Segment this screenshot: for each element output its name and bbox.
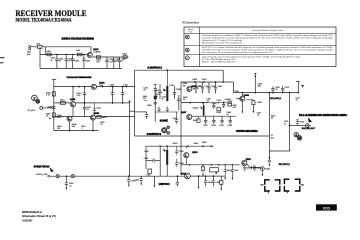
wire: center top bus — [181, 81, 234, 83]
svg-text:A SUPPLY 1: A SUPPLY 1 — [147, 67, 162, 70]
capacitor C402 — [65, 56, 67, 59]
svg-text:L402: L402 — [76, 50, 80, 52]
svg-text:.01: .01 — [275, 89, 278, 91]
svg-text:R401: R401 — [46, 51, 51, 53]
svg-text:.01: .01 — [100, 124, 103, 126]
svg-text:C442: C442 — [173, 118, 178, 120]
wire: feed riser — [45, 47, 47, 55]
component block — [154, 96, 157, 100]
wire: left rail — [53, 79, 55, 130]
svg-text:RX_AUD: RX_AUD — [28, 109, 36, 112]
resistor R432 — [217, 108, 221, 111]
svg-text:VCO_RF_OUT: VCO_RF_OUT — [302, 128, 316, 130]
capacitor C408 — [118, 57, 120, 60]
capacitor C433 — [213, 103, 215, 106]
label LOW VCO — [159, 183, 169, 185]
wire: Q408 base — [236, 98, 241, 100]
ground arrow — [198, 176, 200, 187]
label VCO_RF_OUT — [302, 128, 314, 130]
svg-text:CR404: CR404 — [225, 99, 231, 101]
label A SUPPLY 1 — [147, 67, 162, 69]
svg-text:R435: R435 — [257, 102, 262, 104]
svg-text:R408: R408 — [102, 117, 107, 119]
svg-text:C462: C462 — [300, 122, 304, 124]
svg-text:.01: .01 — [109, 61, 112, 63]
svg-text:.01: .01 — [121, 61, 124, 63]
wire: top feed — [34, 46, 38, 48]
wire: right vertical rail — [268, 93, 270, 158]
label PLL injection — [299, 114, 347, 116]
wire: crystal top bus — [146, 145, 214, 147]
svg-text:C435: C435 — [203, 125, 208, 127]
transistor Q404 — [67, 116, 72, 121]
wire: center low bus — [190, 115, 236, 117]
svg-text:330: 330 — [258, 86, 261, 88]
svg-text:R441: R441 — [194, 143, 199, 145]
thick inductor L409 — [166, 70, 168, 86]
svg-text:.01: .01 — [69, 185, 72, 187]
label 5 RX VCO — [34, 166, 50, 168]
svg-text:82 MHZ: 82 MHZ — [160, 121, 169, 123]
resistor R443 — [202, 165, 204, 167]
table header separator — [184, 33, 336, 35]
capacitor C458 — [244, 165, 246, 168]
svg-text:R404: R404 — [96, 51, 101, 53]
page edge mark — [0, 57, 5, 59]
terminal E401 — [254, 73, 256, 75]
table frame — [184, 27, 336, 67]
resistor R412 series — [60, 102, 65, 105]
svg-text:.01: .01 — [86, 109, 89, 111]
label BUFFER AMPLIFIERS — [236, 130, 258, 132]
transistor Q407 — [187, 114, 192, 119]
ground bus — [40, 68, 122, 70]
svg-text:47: 47 — [51, 60, 53, 62]
wire: low bus — [181, 164, 240, 166]
wedge mark — [301, 85, 304, 88]
resistor R444 — [261, 167, 265, 171]
svg-text:C457: C457 — [234, 170, 239, 172]
capacitor C431 — [159, 86, 161, 91]
svg-text:4.7: 4.7 — [227, 114, 230, 116]
reference bubble 3 — [36, 100, 40, 104]
capacitor C413 — [84, 103, 86, 107]
capacitor C412 — [84, 87, 86, 93]
transistor Q402 — [91, 84, 96, 89]
svg-text:.1: .1 — [81, 128, 83, 130]
thick inductor L408 — [203, 105, 205, 115]
resistor R407 rail — [52, 113, 55, 117]
wire: ballast top bus — [54, 86, 135, 88]
svg-text:15: 15 — [162, 99, 164, 101]
svg-text:R444: R444 — [265, 169, 270, 171]
svg-text:SUPPLY VOLTAGE FILTERING: SUPPLY VOLTAGE FILTERING — [62, 37, 95, 41]
transistor Q405 — [90, 115, 95, 120]
capacitor C446 — [176, 159, 178, 163]
svg-text:C: C — [186, 56, 188, 60]
capacitor C442 — [176, 112, 178, 120]
svg-text:RF_OUT_2: RF_OUT_2 — [279, 164, 291, 166]
box outline — [210, 168, 219, 172]
capacitor C451 — [128, 175, 130, 177]
transistor Q409 — [185, 173, 191, 179]
wire: mid bus — [40, 54, 87, 56]
wire: Q408 emitter — [241, 102, 243, 112]
svg-text:VCO: VCO — [323, 206, 331, 210]
svg-text:68P81094E34-A: 68P81094E34-A — [22, 210, 42, 214]
ground arrow — [153, 176, 155, 185]
svg-text:220: 220 — [143, 98, 146, 100]
svg-text:18: 18 — [296, 100, 298, 102]
capacitor C406 — [106, 57, 108, 60]
varactor CR405 — [178, 95, 180, 99]
wire: rail end riser — [297, 81, 299, 92]
svg-text:STEER_LINE: STEER_LINE — [36, 174, 48, 176]
svg-text:MODEL TRX4034A/CRX4034A: MODEL TRX4034A/CRX4034A — [16, 18, 72, 24]
section label: SUPPLY VOLTAGE FILTERING — [62, 38, 95, 40]
resistor R408 — [97, 116, 101, 119]
svg-text:.01: .01 — [68, 61, 71, 63]
capacitor C404 — [83, 56, 85, 59]
capacitor C414 — [93, 103, 95, 109]
svg-text:C414: C414 — [96, 107, 101, 109]
resistor R402 series — [77, 53, 82, 56]
capacitor C437 — [221, 116, 223, 120]
svg-text:L401: L401 — [36, 44, 40, 46]
svg-text:C404: C404 — [86, 61, 91, 63]
wire: emitter bus — [93, 56, 129, 58]
svg-text:C438: C438 — [228, 125, 233, 127]
svg-text:Path: Path — [188, 31, 192, 34]
capacitor C435 — [205, 116, 207, 120]
label A SUPPLY 2 — [147, 133, 162, 135]
wire: center left rail — [180, 82, 182, 175]
wire: Q403 emitter — [72, 107, 74, 117]
svg-text:C449: C449 — [217, 86, 221, 88]
capacitor C450 — [65, 175, 67, 177]
svg-text:C433: C433 — [212, 103, 217, 105]
resistor R406 — [52, 92, 55, 96]
connector J401 — [29, 46, 31, 48]
shield can 2 — [284, 179, 289, 184]
table row 2 symbol — [185, 48, 189, 52]
wire: 82MHz inner bus — [155, 111, 179, 113]
value labels center block — [155, 83, 237, 116]
svg-text:68: 68 — [271, 118, 273, 120]
svg-text:RECEIVER MODULE: RECEIVER MODULE — [16, 9, 87, 18]
svg-text:R405: R405 — [122, 53, 127, 55]
capacitor C436 — [213, 116, 215, 120]
crystal Y401 — [148, 169, 152, 173]
svg-text:Q409: Q409 — [181, 172, 187, 175]
polarity mark — [49, 117, 51, 119]
svg-text:VCO Service Notes: VCO Service Notes — [182, 21, 199, 25]
section label: VCO BALLAST UNREGULATED — [67, 77, 92, 79]
svg-text:A SUPPLY 2: A SUPPLY 2 — [147, 133, 162, 136]
label RF_OUT_2 — [279, 163, 289, 165]
capacitor C441 — [166, 107, 168, 110]
svg-text:R431: R431 — [202, 79, 207, 81]
capacitor C403 — [72, 56, 74, 59]
wire: VCO out — [290, 125, 306, 127]
capacitor C434 — [223, 103, 225, 105]
resistor R401 series — [47, 53, 51, 56]
wire: inner vertical rail — [129, 101, 131, 176]
svg-text:C410: C410 — [110, 84, 115, 86]
inline connector 1 — [56, 175, 59, 178]
svg-text:Description/Nominal Signal Lev: Description/Nominal Signal Levels — [252, 29, 284, 32]
wire: after Q409 — [190, 175, 225, 177]
wire: left box edge — [134, 70, 136, 136]
wire: Q403 collector — [72, 87, 74, 102]
wire: ballast mid bus — [54, 102, 71, 104]
reference bubble 4 — [294, 132, 298, 136]
inline connector 2 — [71, 175, 74, 178]
inductor L401 — [38, 45, 43, 48]
svg-text:R433: R433 — [228, 101, 233, 103]
svg-text:10: 10 — [59, 61, 61, 63]
svg-text:C411: C411 — [123, 84, 127, 86]
svg-text:R430: R430 — [193, 79, 198, 81]
thick inductor L410 — [166, 150, 168, 165]
wire: box bottom edge — [135, 135, 270, 137]
svg-text:BUFFER AMPLIFIERS: BUFFER AMPLIFIERS — [236, 130, 258, 133]
capacitor C410 — [112, 87, 114, 93]
wire RX input — [43, 107, 54, 109]
capacitor C443 series — [146, 159, 153, 161]
svg-text:C452: C452 — [135, 180, 140, 182]
transistor Q411 — [242, 160, 247, 165]
transistor Q410 — [184, 153, 189, 158]
wire: buffer bias bus — [180, 145, 182, 147]
capacitor C462 — [297, 123, 299, 125]
shield can 2 pin — [286, 191, 288, 193]
svg-text:L409: L409 — [170, 85, 174, 87]
svg-text:Q411: Q411 — [246, 158, 252, 161]
resistor R405 end — [123, 56, 127, 59]
svg-text:R442: R442 — [202, 142, 207, 144]
shield can 2 tick — [301, 184, 304, 186]
resistor R434 — [197, 119, 200, 122]
wire: output stub — [247, 164, 249, 167]
shield can tick — [260, 184, 263, 186]
table row separator 1 — [184, 45, 336, 47]
wire: inner rail 155 — [154, 84, 158, 86]
transistor Q406 — [187, 86, 192, 91]
svg-text:01/05/97: 01/05/97 — [22, 218, 33, 222]
wire: A SUPPLY 1 rail — [135, 69, 224, 71]
svg-text:VCO BALLAST UNREGULATED: VCO BALLAST UNREGULATED — [67, 76, 92, 79]
resistor R433 — [228, 103, 232, 106]
page edge mark — [0, 62, 4, 64]
svg-text:LOW VCO: LOW VCO — [159, 184, 170, 186]
wire: ballast bottom bus — [54, 130, 99, 132]
capacitor C454 — [205, 176, 207, 181]
ballast lower labels — [57, 122, 105, 130]
capacitor C409 left rail — [53, 105, 55, 107]
svg-text:C436: C436 — [211, 125, 216, 127]
svg-text:.22: .22 — [207, 101, 210, 103]
wire: far right vertical — [289, 93, 291, 151]
capacitor C407 — [113, 57, 115, 60]
svg-text:C445: C445 — [179, 151, 184, 153]
transistor Q401 — [87, 52, 92, 57]
capacitor C453 series stub — [176, 175, 178, 177]
capacitor C445 — [176, 146, 178, 151]
svg-text:8.2: 8.2 — [155, 96, 158, 98]
capacitor C457 — [231, 165, 233, 170]
capacitor C455 — [212, 176, 214, 181]
svg-text:R434: R434 — [193, 120, 198, 122]
reference bubble 2 — [32, 95, 38, 101]
table row separator 2 — [184, 54, 336, 56]
ground arrow — [242, 111, 244, 113]
transistor Q403 — [70, 102, 75, 107]
svg-text:33: 33 — [143, 90, 145, 92]
node tick — [52, 78, 56, 80]
resistor R435 — [246, 99, 253, 101]
capacitor C452 — [140, 176, 142, 178]
transistor Q408 — [240, 96, 245, 101]
wire: ballast low bus — [54, 115, 135, 117]
connector P401 — [306, 124, 310, 128]
svg-text:C437: C437 — [219, 125, 224, 127]
shield can 1 pin — [267, 191, 269, 193]
capacitor C421 — [282, 90, 284, 93]
capacitor C460 series — [250, 166, 252, 170]
svg-text:CR405: CR405 — [193, 108, 199, 110]
svg-text:Q408: Q408 — [244, 94, 250, 97]
reference bubble 5 — [297, 136, 302, 141]
wire: gnd drop left — [39, 47, 41, 69]
svg-text:489.35 - 501.35 MHz for high V: 489.35 - 501.35 MHz for high VCO — [202, 60, 236, 63]
capacitor C420 — [272, 90, 274, 93]
capacitor C411 — [122, 87, 124, 93]
svg-text:401: 401 — [271, 137, 274, 139]
svg-text:Baseband = 4 V low VCO (collec: Baseband = 4 V low VCO (collector) — [202, 42, 242, 45]
svg-text:C403: C403 — [75, 61, 80, 63]
svg-text:CR404: CR404 — [176, 89, 182, 91]
table row 3 text — [202, 55, 300, 63]
wire: VCO output line — [48, 175, 50, 177]
wire: crystal left rail — [159, 146, 161, 176]
wire + ground arrow 2 — [252, 105, 254, 111]
svg-text:the capacitance of the varacto: the capacitance of the varactor diodes a… — [202, 51, 274, 54]
table row 1 text — [202, 34, 334, 45]
svg-text:Q405: Q405 — [94, 112, 100, 115]
table row 1 symbol — [185, 35, 189, 39]
wire: crystal left feed — [145, 146, 147, 169]
svg-text:R413: R413 — [57, 117, 62, 119]
svg-text:Q407: Q407 — [181, 111, 187, 114]
label RF_OUT_1 — [270, 97, 280, 99]
svg-text:10: 10 — [116, 61, 118, 63]
svg-text:Schematics (Sheet 16 of 27): Schematics (Sheet 16 of 27) — [22, 214, 56, 218]
svg-text:RF_OUT_1: RF_OUT_1 — [270, 98, 282, 100]
capacitor C438 — [229, 116, 231, 120]
shield can 1 — [265, 180, 270, 185]
capacitor C461 — [268, 158, 270, 161]
svg-text:R412: R412 — [60, 99, 65, 101]
svg-text:Q410: Q410 — [192, 151, 198, 154]
capacitor C432 — [174, 86, 176, 93]
svg-text:6.8: 6.8 — [217, 102, 220, 104]
capacitor C401 — [56, 56, 58, 59]
VCO label box — [316, 204, 337, 210]
svg-text:560: 560 — [72, 126, 75, 128]
oscillator symbol — [162, 128, 167, 133]
resistor R403 series — [97, 56, 101, 58]
svg-text:12: 12 — [284, 123, 286, 125]
svg-text:R440: R440 — [173, 143, 178, 145]
wire: center mid bus — [181, 102, 208, 104]
svg-text:5 RX VCO: 5 RX VCO — [34, 166, 50, 168]
wire: box inner feed — [135, 111, 147, 113]
svg-text:100: 100 — [96, 62, 99, 64]
wire: Q408 collector to supply — [241, 93, 243, 96]
svg-text:PLL & MIXER RF INJECTION AMPL: PLL & MIXER RF INJECTION AMPL — [299, 114, 348, 117]
label 82 MHZ — [160, 120, 168, 122]
resistor R450 — [220, 176, 222, 180]
svg-text:12: 12 — [197, 88, 199, 90]
svg-text:R432: R432 — [217, 112, 222, 114]
pointer wedge 2 — [308, 117, 312, 122]
svg-text:C466: C466 — [147, 105, 152, 107]
svg-text:.01: .01 — [257, 115, 260, 117]
table column divider — [199, 27, 201, 67]
svg-text:R421: R421 — [235, 91, 239, 93]
capacitor C440 — [158, 107, 160, 110]
svg-text:C421: C421 — [285, 87, 290, 89]
capacitor row C430-C449 — [194, 82, 221, 94]
capacitor C464 — [154, 101, 157, 103]
capacitor C459 — [254, 165, 256, 168]
pointer wedge — [50, 167, 54, 172]
table row 2 text — [202, 46, 333, 54]
svg-text:C454: C454 — [208, 182, 213, 184]
capacitor C456 — [224, 165, 226, 170]
table row 3 symbol — [185, 56, 189, 60]
